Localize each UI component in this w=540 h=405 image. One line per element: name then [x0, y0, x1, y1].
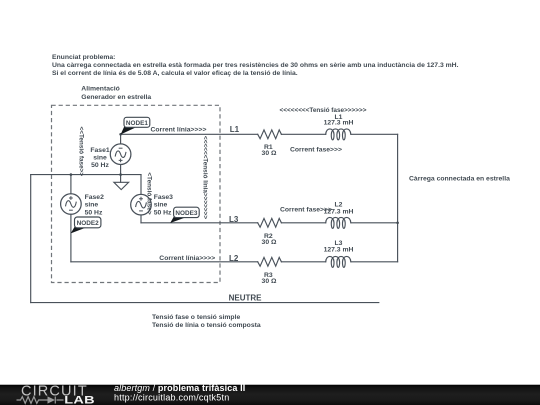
wire Fase1 bottom lead to ground	[120, 165, 122, 183]
wire L1 line left segment	[121, 133, 258, 135]
junction dots	[70, 133, 399, 224]
inductor L3	[326, 256, 351, 267]
NODE1 flag	[121, 127, 135, 135]
Fase3 plus (top)	[139, 197, 143, 201]
NODE3	[174, 207, 200, 217]
wire L2 line left segment	[71, 261, 258, 263]
svg-text:sine: sine	[93, 154, 107, 161]
svg-text:L1: L1	[230, 125, 240, 134]
svg-text:<<Tensió fase>>: <<Tensió fase>>	[77, 126, 84, 176]
svg-text:Enunciat problema:: Enunciat problema:	[52, 54, 115, 61]
svg-text:30 Ω: 30 Ω	[262, 239, 277, 246]
Fase2 minus (bottom)	[69, 209, 73, 211]
wire Fase2 top lead	[70, 175, 72, 194]
svg-text:L2: L2	[229, 254, 239, 263]
node dot at NODE1 point	[119, 133, 122, 136]
svg-text:Generador en estrella: Generador en estrella	[81, 94, 151, 101]
svg-text:albertgm / problema trifàsica: albertgm / problema trifàsica II	[114, 383, 245, 393]
svg-text:Corrent fase>>>: Corrent fase>>>	[290, 147, 342, 154]
svg-text:http://circuitlab.com/cqtk5tn: http://circuitlab.com/cqtk5tn	[114, 393, 229, 403]
ground	[114, 182, 129, 189]
svg-text:Càrrega connectada en estrella: Càrrega connectada en estrella	[409, 175, 510, 182]
wire L3 line from Fase3	[141, 222, 258, 224]
wire L2 line right segment	[351, 261, 398, 263]
svg-text:Una càrrega connectada en estr: Una càrrega connectada en estrella està …	[52, 62, 459, 69]
inductor L2	[326, 217, 351, 228]
component + signal labels	[77, 107, 510, 329]
Fase1 plus (bottom)	[119, 159, 123, 163]
wire Fase1 top lead	[120, 134, 122, 144]
svg-text:NODE1: NODE1	[126, 120, 148, 127]
resistor R1	[258, 130, 282, 139]
resistor R3	[258, 257, 282, 266]
svg-text:L3: L3	[229, 215, 239, 224]
svg-text:Alimentació: Alimentació	[81, 86, 120, 93]
svg-text:127.3 mH: 127.3 mH	[324, 247, 354, 254]
source polarity marks	[69, 148, 143, 211]
svg-text:Fase3: Fase3	[154, 194, 173, 201]
svg-text:NEUTRE: NEUTRE	[229, 293, 263, 302]
logo resistor squiggle	[17, 397, 64, 404]
wire L1 line right segment	[351, 133, 398, 135]
inductor L1	[326, 129, 351, 140]
NODE3 flag	[170, 217, 184, 223]
svg-text:50 Hz: 50 Hz	[85, 209, 103, 216]
svg-text:<Tensió fase>: <Tensió fase>	[146, 172, 153, 214]
voltage source Fase3	[131, 194, 152, 215]
svg-text:Corrent línia>>>>: Corrent línia>>>>	[151, 127, 207, 134]
wire generator bus horizontal	[31, 174, 141, 176]
voltage source Fase1	[110, 144, 131, 165]
voltage source Fase2	[61, 194, 82, 215]
svg-text:Fase2: Fase2	[85, 194, 104, 201]
wire L3 line mid segment	[281, 222, 325, 224]
svg-text:NODE2: NODE2	[77, 220, 99, 227]
svg-text:Corrent fase>>>: Corrent fase>>>	[280, 206, 332, 213]
svg-text:50 Hz: 50 Hz	[91, 162, 109, 169]
wire Fase3 top lead	[140, 175, 142, 195]
svg-text:NODE3: NODE3	[175, 210, 197, 217]
Fase2 plus (top)	[69, 196, 73, 200]
wire L1 line mid segment	[281, 133, 325, 135]
NODE2	[75, 217, 101, 228]
svg-text:Si el corrent de línia és de 5: Si el corrent de línia és de 5.08 A, cal…	[52, 70, 298, 77]
svg-text:Corrent línia>>>>: Corrent línia>>>>	[159, 255, 215, 262]
svg-text:Tensió fase o tensió simple: Tensió fase o tensió simple	[152, 314, 240, 321]
Fase3 minus (bottom)	[139, 210, 143, 212]
junction ground bus	[119, 173, 122, 176]
svg-text:127.3 mH: 127.3 mH	[324, 119, 354, 126]
wire L2 line mid segment	[281, 261, 325, 263]
wire Fase3 bottom lead	[140, 215, 142, 223]
wire Fase2 bottom lead	[70, 214, 72, 261]
Fase1 minus (top)	[119, 147, 123, 149]
dashed generator box	[52, 105, 221, 282]
wire neutral line	[31, 302, 379, 304]
svg-text:<<<<<<Tensió línia>>>>>>>: <<<<<<Tensió línia>>>>>>>	[202, 136, 209, 219]
junction load star	[396, 222, 399, 225]
svg-text:30 Ω: 30 Ω	[262, 150, 277, 157]
svg-text:Tensió de línia o tensió compo: Tensió de línia o tensió composta	[152, 322, 261, 329]
resistor R2	[258, 218, 282, 227]
NODE1	[124, 117, 150, 127]
junction Fase2 bus	[70, 173, 73, 176]
wire left vertical to neutral	[30, 175, 32, 303]
svg-text:sine: sine	[85, 202, 99, 209]
svg-text:50 Hz: 50 Hz	[154, 209, 172, 216]
svg-text:30 Ω: 30 Ω	[262, 278, 277, 285]
svg-text:LAB: LAB	[64, 393, 95, 405]
wire L3 line right segment	[351, 222, 398, 224]
svg-text:Fase1: Fase1	[90, 147, 109, 154]
wire right vertical (load star)	[397, 134, 399, 261]
NODE2 flag	[71, 227, 86, 234]
svg-text:sine: sine	[154, 202, 168, 209]
svg-text:<<<<<<<<Tensió fase>>>>>>: <<<<<<<<Tensió fase>>>>>>	[280, 107, 367, 114]
footer bar	[0, 385, 540, 405]
